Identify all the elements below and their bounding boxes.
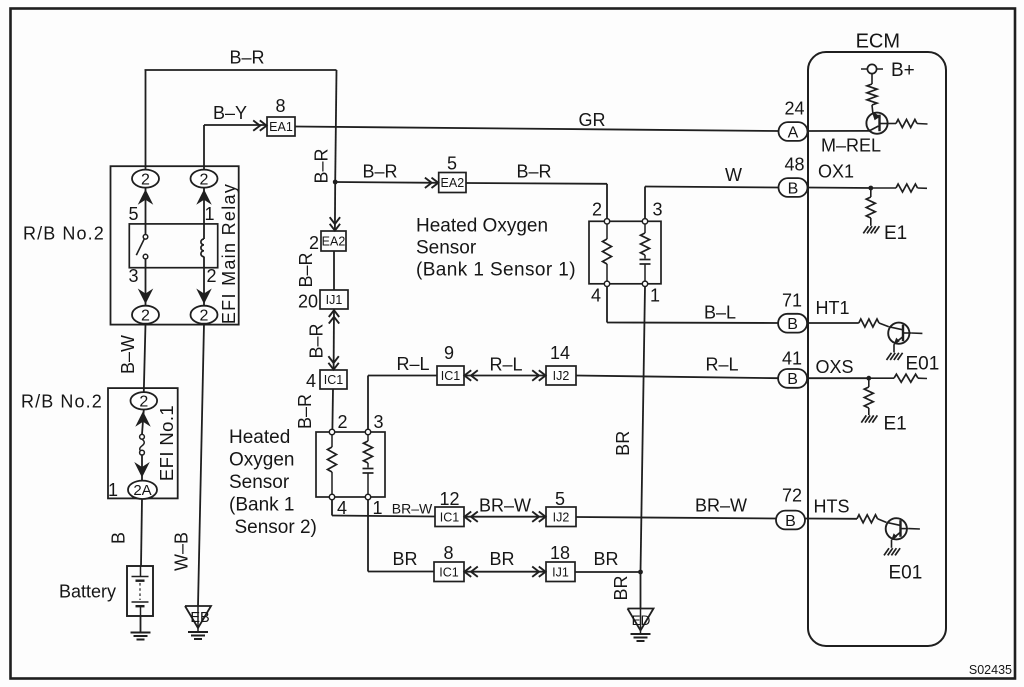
label B-R (rotated, EA2 to IJ1): [296, 252, 316, 287]
wire BR IJ1 to junction: [575, 571, 641, 573]
connector chevrons into EA1: [253, 120, 266, 130]
svg-text:R–L: R–L: [396, 354, 429, 374]
sensor2 pin 4: [329, 494, 347, 518]
connector IC1 pin 12: [435, 489, 464, 527]
ground E01 lower: [884, 548, 900, 555]
svg-text:EFI No.1: EFI No.1: [156, 405, 177, 481]
sensor1 heater resistor: [603, 224, 612, 281]
svg-text:IJ2: IJ2: [553, 510, 570, 524]
wire OX1 inside ECM: [808, 187, 871, 190]
svg-text:B–R: B–R: [516, 162, 551, 182]
relay switch contact: [136, 235, 148, 259]
svg-text:IC1: IC1: [440, 510, 460, 524]
svg-text:B: B: [787, 371, 798, 388]
ground E01 upper: [887, 353, 903, 360]
svg-text:41: 41: [782, 349, 802, 369]
svg-text:Oxygen: Oxygen: [229, 450, 294, 471]
B+ terminal: [861, 64, 883, 73]
label B (rotated): [109, 532, 129, 544]
svg-text:E1: E1: [884, 414, 907, 435]
relay internal wires: [146, 188, 205, 306]
figure number S02435: [969, 663, 1012, 677]
svg-text:B: B: [785, 513, 796, 530]
label B+: [891, 60, 915, 81]
connector chevrons into EA2 pin 5: [425, 178, 438, 188]
label E1 upper: [884, 223, 907, 244]
svg-text:1: 1: [373, 498, 383, 518]
svg-text:BR: BR: [613, 431, 633, 456]
wire BR sensor1 pin1 down to junction: [641, 287, 646, 573]
svg-text:IJ2: IJ2: [553, 369, 570, 383]
junction node OXS: [866, 376, 871, 381]
sensor1 pin 3: [642, 200, 662, 225]
label HTS: [814, 497, 850, 517]
junction node OX1: [868, 186, 873, 191]
svg-text:Heated: Heated: [229, 427, 290, 448]
svg-text:R–L: R–L: [489, 355, 522, 375]
wire B-R from EFI main relay pin 5 to EA2 junction: [145, 70, 337, 231]
wire OXS inside ECM: [808, 377, 869, 379]
ECM pin 41 B (OXS): [778, 349, 807, 389]
svg-text:EA2: EA2: [322, 235, 346, 249]
svg-text:14: 14: [550, 343, 570, 363]
wire ECM pin A to transistor base: [808, 130, 870, 132]
svg-text:IC1: IC1: [441, 369, 461, 383]
wire HTS inside ECM: [805, 518, 857, 520]
label BR middle: [489, 549, 514, 569]
svg-text:1: 1: [650, 286, 660, 306]
svg-text:IC1: IC1: [324, 373, 344, 387]
svg-text:W: W: [725, 165, 742, 185]
svg-text:Sensor: Sensor: [416, 238, 477, 259]
connector IJ1 pin 18: [546, 543, 575, 582]
label Heated Oxygen Sensor (Bank 1 Sensor 2): [229, 427, 317, 538]
svg-text:(Bank 1: (Bank 1: [229, 495, 294, 516]
svg-text:B–R: B–R: [312, 148, 332, 183]
svg-text:B: B: [788, 180, 799, 197]
wire B fuse to battery: [141, 499, 142, 566]
fuse block R/B No.2 (EFI No.1): [108, 388, 178, 498]
wire BR-W IJ2 to ECM pin 72: [576, 517, 776, 519]
relay coil: [201, 239, 204, 257]
wire BR-W sensor2 pin4 to IC1 pin12: [332, 500, 435, 517]
junction node BR: [638, 570, 643, 575]
sensor2 box: [316, 432, 385, 497]
svg-text:3: 3: [653, 200, 663, 220]
svg-text:R–L: R–L: [705, 355, 738, 375]
svg-text:20: 20: [298, 292, 318, 312]
resistor to B+: [867, 74, 877, 113]
svg-text:EFI Main Relay: EFI Main Relay: [219, 183, 239, 324]
svg-text:B: B: [787, 316, 798, 333]
svg-text:1: 1: [205, 204, 215, 224]
svg-text:W–B: W–B: [172, 532, 192, 571]
label BR right: [593, 549, 618, 569]
label OXS: [816, 357, 854, 377]
fuse oval 2A: [128, 481, 157, 500]
wire B-R from EA2 to sensor1 pin 2: [466, 183, 607, 218]
label R-L right: [705, 355, 738, 375]
svg-text:E1: E1: [884, 223, 907, 244]
fuse internal wire: [142, 410, 144, 481]
svg-text:48: 48: [784, 155, 804, 175]
resistor HTS: [857, 515, 886, 523]
sensor2 pin 1: [365, 494, 382, 518]
svg-text:HT1: HT1: [816, 298, 850, 318]
relay pin 2 arrow: [196, 289, 212, 305]
resistor OXS series: [869, 374, 927, 382]
resistor OXS pulldown: [864, 381, 873, 416]
svg-text:71: 71: [782, 291, 802, 311]
relay connector oval 2 bottom-right: [191, 306, 218, 325]
connector chevrons up into IJ1: [329, 310, 339, 323]
svg-text:4: 4: [591, 286, 601, 306]
sensor1 pin 2: [592, 200, 610, 225]
label R/B No.2 lower: [21, 392, 103, 412]
label R/B No.2: [23, 224, 105, 244]
connector EA2 pin 2: [309, 231, 346, 253]
svg-text:B: B: [109, 532, 129, 544]
svg-text:BR: BR: [611, 575, 631, 600]
relay pin number 5: [128, 204, 138, 224]
wire B-Y from relay pin 1 to EA1: [204, 125, 267, 170]
ground E1 upper: [863, 226, 879, 233]
svg-text:(Bank 1 Sensor 1): (Bank 1 Sensor 1): [416, 260, 576, 281]
wire HT1 emitter to ground: [893, 344, 895, 352]
ECM pin 72 B (HTS): [776, 486, 805, 530]
connector chevrons left into IC1 pin9: [464, 370, 477, 380]
label HT1: [816, 298, 850, 318]
svg-text:2: 2: [338, 412, 348, 432]
svg-text:EA2: EA2: [441, 176, 465, 190]
label W: [725, 165, 742, 185]
wire B-R junction to EA2 pin 5: [335, 181, 438, 184]
fuse element EFI No.1: [140, 434, 145, 455]
label B-R (rotated, above junction): [312, 148, 332, 183]
label B-R top: [229, 48, 264, 68]
svg-text:BR: BR: [489, 549, 514, 569]
label B-R (rotated, IC1 to sensor2): [295, 394, 315, 429]
connector chevrons left into IC1 pin12: [464, 512, 477, 522]
svg-text:OX1: OX1: [818, 162, 854, 182]
label B-W (rotated): [118, 335, 138, 374]
ECM pin 24 A (M-REL): [779, 99, 808, 142]
svg-text:8: 8: [275, 96, 285, 116]
svg-text:B–W: B–W: [118, 335, 138, 374]
svg-text:B–R: B–R: [296, 252, 316, 287]
svg-text:B–R: B–R: [295, 394, 315, 429]
wire HTS emitter to ground: [891, 540, 893, 548]
svg-text:72: 72: [782, 486, 802, 506]
label ECM: [856, 31, 900, 53]
svg-text:Sensor: Sensor: [229, 472, 290, 493]
label OX1: [818, 162, 854, 182]
wire GR from EA1 to ECM pin 24: [295, 127, 779, 132]
ground ED: [628, 609, 654, 642]
sensor1 sensing element: [640, 224, 651, 281]
svg-text:5: 5: [447, 154, 457, 174]
svg-text:Heated Oxygen: Heated Oxygen: [416, 216, 548, 237]
wire IJ1 to IC1 pin4: [333, 309, 335, 370]
connector EA1 pin 8: [267, 96, 295, 136]
wire R-L sensor2 pin3 to IC1 pin9: [368, 376, 437, 430]
svg-text:EA1: EA1: [269, 120, 293, 134]
sensor2 pin 2: [329, 412, 347, 435]
svg-text:3: 3: [374, 412, 384, 432]
connector chevrons into EA2 pin 2: [330, 217, 340, 230]
label E01 lower: [889, 563, 923, 584]
resistor HT1: [859, 319, 889, 327]
ground battery: [131, 633, 151, 640]
label R-L middle: [489, 355, 522, 375]
svg-text:3: 3: [128, 266, 138, 286]
svg-text:12: 12: [439, 489, 459, 509]
ground EB: [185, 606, 211, 639]
relay block R/B No.2: [111, 166, 239, 324]
svg-text:GR: GR: [579, 110, 606, 130]
relay connector oval 2 top-right: [191, 170, 218, 189]
relay inner box: [129, 224, 217, 268]
connector IJ1 pin 20: [298, 290, 348, 312]
svg-text:BR–W: BR–W: [479, 496, 531, 516]
wire BR IC1 to IJ1: [464, 571, 546, 573]
connector IJ2 pin 14: [546, 343, 576, 385]
svg-text:2: 2: [141, 307, 150, 324]
svg-text:ECM: ECM: [856, 31, 900, 53]
wire W-B relay to EB ground: [198, 324, 204, 606]
relay connector oval 2 top-left: [132, 170, 159, 189]
svg-text:2: 2: [309, 233, 319, 253]
wire EA2 pin2 to IJ1 pin20: [333, 251, 335, 290]
svg-text:BR–W: BR–W: [695, 496, 747, 516]
junction node B-R: [333, 180, 338, 185]
svg-text:B–R: B–R: [229, 48, 264, 68]
connector chevrons right into IJ2 pin14: [532, 370, 545, 380]
svg-text:1: 1: [108, 480, 118, 500]
fuse arrow down: [134, 462, 150, 478]
relay connector oval 2 bottom-left: [132, 306, 159, 325]
svg-text:B–Y: B–Y: [213, 103, 247, 123]
svg-text:EB: EB: [190, 610, 209, 626]
label GR: [579, 110, 606, 130]
svg-text:2: 2: [139, 394, 148, 411]
svg-text:2: 2: [207, 266, 217, 286]
wire battery to ground: [140, 616, 142, 633]
svg-text:IC1: IC1: [439, 565, 459, 579]
transistor HT1 driver: [888, 323, 922, 346]
label B-R (rotated, IJ1 to IC1): [307, 323, 327, 358]
svg-text:S02435: S02435: [969, 663, 1012, 677]
relay pin 3 arrow: [138, 289, 154, 305]
svg-text:BR–W: BR–W: [392, 501, 433, 517]
svg-text:R/B No.2: R/B No.2: [21, 392, 103, 412]
svg-text:BR: BR: [392, 549, 417, 569]
svg-text:24: 24: [784, 99, 804, 119]
ECM pin 71 B (HT1): [778, 291, 807, 334]
svg-text:2: 2: [141, 171, 150, 188]
connector chevrons right into IJ2 pin5: [532, 512, 545, 522]
label Heated Oxygen Sensor (Bank 1 Sensor 1): [416, 216, 576, 281]
svg-text:B–R: B–R: [307, 323, 327, 358]
svg-text:HTS: HTS: [814, 497, 850, 517]
label EFI Main Relay (rotated): [219, 183, 239, 324]
svg-text:4: 4: [306, 371, 316, 391]
fuse oval 2: [131, 392, 158, 410]
connector chevrons down into IC1 pin4: [328, 356, 338, 369]
svg-text:2: 2: [592, 200, 602, 220]
emitter resistor M-REL: [888, 120, 928, 128]
label B-Y: [213, 103, 247, 123]
wire W sensor1 pin3 to ECM pin 48: [645, 187, 779, 219]
wire BR-W IC1 to IJ2: [464, 516, 546, 518]
label BR-W small: [392, 501, 433, 517]
svg-text:5: 5: [128, 204, 138, 224]
connector IC1 pin 8: [434, 543, 464, 582]
svg-text:M–REL: M–REL: [821, 136, 881, 156]
label BR-W middle: [479, 496, 531, 516]
connector EA2 pin 5: [439, 154, 466, 193]
relay pin number 1: [205, 204, 215, 224]
label R-L left: [396, 354, 429, 374]
ECM pin 48 B (OX1): [779, 155, 808, 198]
svg-text:9: 9: [444, 343, 454, 363]
svg-text:B–R: B–R: [362, 162, 397, 182]
sensor2 heater resistor: [328, 435, 337, 495]
connector IC1 pin 4: [306, 370, 347, 391]
relay pin number 3: [128, 266, 138, 286]
svg-text:A: A: [788, 124, 799, 141]
fuse pin number 1: [108, 480, 118, 500]
svg-text:Sensor 2): Sensor 2): [235, 517, 317, 538]
label W-B (rotated): [172, 532, 192, 571]
svg-text:8: 8: [443, 543, 453, 563]
svg-text:R/B No.2: R/B No.2: [23, 224, 105, 244]
label BR (rotated, to ED): [611, 575, 631, 600]
svg-text:Battery: Battery: [59, 582, 116, 602]
svg-text:B+: B+: [891, 60, 915, 81]
label B-R before EA2: [362, 162, 397, 182]
svg-text:E01: E01: [889, 563, 923, 584]
sensor1 pin 1: [642, 281, 660, 305]
wire R-L IJ2 to ECM pin 41: [576, 376, 778, 379]
wire B-L sensor1 pin4 to ECM pin 71: [607, 287, 778, 324]
ECM block: [808, 52, 946, 646]
svg-text:ED: ED: [632, 613, 651, 628]
battery: [127, 566, 153, 616]
relay pin 5 arrow: [138, 189, 154, 205]
wire IC1 pin4 to sensor2 pin 2: [331, 389, 334, 429]
connector IJ2 pin 5: [546, 489, 576, 527]
svg-text:5: 5: [555, 489, 565, 509]
relay pin number 2: [207, 266, 217, 286]
svg-text:18: 18: [550, 543, 570, 563]
connector IC1 pin 9: [437, 343, 464, 385]
fuse arrow up: [135, 411, 151, 427]
wire HT1 inside ECM: [808, 322, 859, 324]
connector chevrons left into IC1 pin8: [464, 567, 477, 577]
transistor HTS driver: [886, 518, 920, 541]
label Battery: [59, 582, 116, 602]
svg-text:IJ1: IJ1: [326, 293, 343, 307]
label E1 lower: [884, 414, 907, 435]
svg-text:2A: 2A: [133, 482, 151, 499]
ground E1 lower: [861, 415, 877, 422]
svg-text:E01: E01: [906, 354, 940, 375]
sensor1 box: [589, 221, 661, 283]
label BR left: [392, 549, 417, 569]
relay pin 1 arrow: [196, 189, 212, 205]
label BR (rotated): [613, 431, 633, 456]
connector chevrons right into IJ1 pin18: [532, 567, 545, 577]
resistor OX1 series: [871, 184, 927, 192]
wire B-W relay to EFI No.1: [144, 324, 146, 392]
sensor2 sensing element: [363, 435, 374, 495]
wire BR sensor2 pin1 to IC1 pin8: [368, 500, 434, 572]
svg-text:OXS: OXS: [816, 357, 854, 377]
label BR-W right: [695, 496, 747, 516]
svg-text:2: 2: [200, 171, 209, 188]
label M-REL: [821, 136, 881, 156]
label E01 upper: [906, 354, 940, 375]
label EFI No.1 (rotated): [156, 405, 177, 481]
svg-text:BR: BR: [593, 549, 618, 569]
transistor M-REL driver: [866, 112, 887, 134]
wire R-L IC1 to IJ2: [464, 375, 546, 377]
sensor2 pin 3: [365, 412, 383, 435]
svg-text:B–L: B–L: [704, 303, 736, 323]
svg-text:IJ1: IJ1: [552, 565, 569, 579]
svg-text:2: 2: [200, 307, 209, 324]
label B-L: [704, 303, 736, 323]
label B-R after EA2: [516, 162, 551, 182]
wire BR junction to ED ground: [640, 572, 642, 609]
sensor1 pin 4: [591, 281, 610, 305]
resistor OX1 pulldown: [866, 190, 875, 226]
